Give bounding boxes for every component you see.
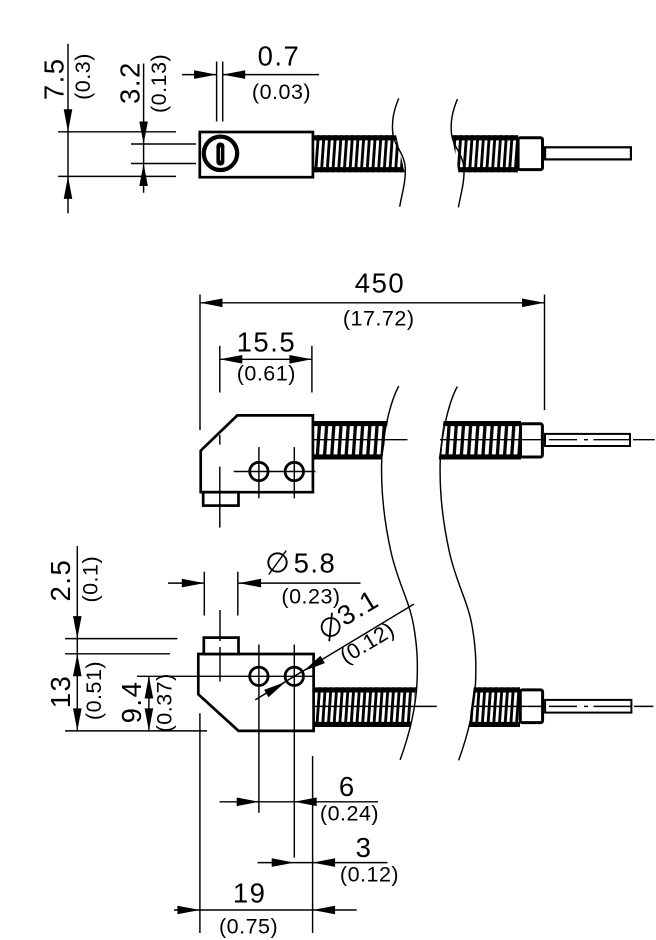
hole 1 (bottom row) (250, 667, 268, 685)
centerline beyond rod (bottom row) (634, 705, 653, 707)
conduit segment 2 (bottom row) (468, 687, 520, 727)
dim 450 line (200, 302, 545, 304)
svg-text:5.8: 5.8 (294, 548, 337, 579)
long break curve L (rows 2-3) (382, 386, 418, 760)
ferrule (middle row) (521, 424, 543, 457)
dim 3.2 line (143, 64, 145, 193)
screw slot (216, 143, 224, 166)
svg-text:(0.51): (0.51) (82, 661, 106, 720)
dim 0.7 extension lines (216, 62, 218, 122)
dim 450 extension right (544, 295, 546, 411)
dim 15.5 line (220, 358, 312, 360)
dim 450 extension left (199, 295, 201, 431)
dim 7.5 extension line top (58, 131, 176, 133)
dim 15.5 extensions (219, 346, 221, 393)
centerline through ferrule (bottom row) (474, 705, 545, 707)
svg-text:3: 3 (356, 832, 373, 863)
svg-text:(0.03): (0.03) (252, 80, 311, 104)
svg-text:2.5: 2.5 (45, 559, 76, 602)
dim 7.5 line (67, 44, 69, 214)
svg-text:(17.72): (17.72) (343, 306, 415, 330)
hole 2 (middle row) (285, 462, 303, 480)
bezel circle (204, 137, 237, 170)
ferrule (top row) (518, 138, 542, 170)
centerline dash-dot in rod (bottom row) (549, 705, 577, 707)
svg-text:15.5: 15.5 (237, 327, 297, 358)
label dia 5.8 (268, 553, 286, 571)
dia3.1 leader line (255, 604, 414, 700)
conduit segment 2 (top row) (450, 135, 518, 172)
centerline beyond rod (middle row) (633, 439, 655, 441)
svg-text:(0.12): (0.12) (340, 863, 399, 887)
svg-text:(0.37): (0.37) (153, 673, 177, 732)
head body (bottom row) (198, 654, 313, 731)
dim 9.4 line (148, 676, 150, 731)
ferrule (bottom row) (520, 690, 542, 723)
svg-text:7.5: 7.5 (39, 57, 70, 100)
break curve 2 (top row) (451, 99, 464, 207)
svg-text:(0.75): (0.75) (219, 915, 278, 939)
break curve 1 (top row) (392, 98, 405, 206)
hole 2 (bottom row) (285, 667, 303, 685)
long break curve R (rows 2-3) (440, 387, 476, 761)
extension right x=312.6 (3/19 dims) (312, 756, 314, 933)
svg-text:19: 19 (233, 878, 267, 909)
hole 1 centerline vertical (bottom row) (258, 645, 260, 813)
hole 2 centerline vertical (293, 447, 295, 498)
svg-text:13: 13 (45, 675, 76, 709)
dim 3.2 extension line top (131, 143, 196, 145)
conduit centerline (middle row) (300, 439, 408, 441)
conduit centerline (bottom row) (302, 705, 437, 707)
label dia 3.1 (rotated) (314, 583, 385, 642)
svg-text:(0.3): (0.3) (71, 53, 95, 100)
mounting tab (middle row) (203, 492, 238, 505)
holes centerline horizontal (middle row) (234, 471, 316, 473)
hole 2 centerline vertical (bottom row) (293, 645, 295, 858)
dim dia5.8 extension lines (203, 572, 205, 616)
svg-text:3.2: 3.2 (115, 61, 146, 104)
head top extension (2.5/13) (65, 653, 170, 655)
rod (top row) (545, 147, 631, 159)
dim 3.2 extension line bottom (131, 163, 196, 165)
dim 6 line (220, 801, 378, 803)
head bottom extension (13/9.4) (65, 730, 207, 732)
svg-text:450: 450 (355, 267, 405, 298)
rod (bottom row) (545, 700, 631, 713)
rod (middle row) (545, 434, 630, 446)
head body (middle row) (201, 415, 313, 492)
svg-text:0.7: 0.7 (258, 41, 301, 72)
conduit segment 1 (bottom row) (312, 687, 417, 727)
sensor body (top row) (200, 132, 313, 177)
dim 19 line (174, 909, 357, 911)
tab top extension (2.5) (65, 638, 177, 640)
svg-text:9.4: 9.4 (116, 681, 147, 724)
svg-text:(0.61): (0.61) (237, 362, 296, 386)
dim 3 line (257, 862, 387, 864)
centerline dash-dot in rod (middle row) (549, 439, 577, 441)
conduit segment 2 (middle row) (438, 421, 521, 460)
dim 7.5 extension line bottom (58, 175, 176, 177)
svg-text:(0.1): (0.1) (78, 556, 102, 603)
conduit segment 1 (middle row) (311, 421, 390, 460)
svg-text:6: 6 (339, 771, 356, 802)
svg-text:(0.24): (0.24) (320, 802, 379, 826)
hole 1 (middle row) (250, 462, 268, 480)
tab centerline (bottom row) (219, 610, 221, 641)
holes centerline horizontal (bottom row) (137, 675, 314, 677)
dim 0.7 line (182, 74, 217, 76)
hole 1 centerline vertical (258, 447, 260, 498)
svg-text:(0.13): (0.13) (147, 54, 171, 113)
dim 2.5/13 shaft (76, 546, 78, 731)
centerline through ferrule (middle row) (440, 439, 545, 441)
extension left x=200 (19 dim) (199, 713, 201, 933)
dim dia5.8 line (168, 582, 204, 584)
tab centerline (middle row) (219, 435, 221, 445)
mounting tab (bottom row) (204, 638, 239, 654)
conduit segment 1 (top row) (311, 135, 407, 172)
